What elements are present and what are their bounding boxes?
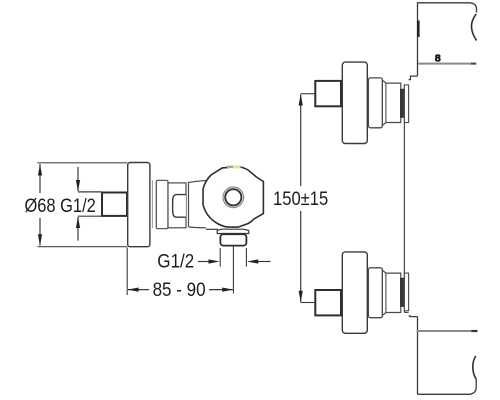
cylinder 1 bottom: [368, 268, 382, 318]
extension line wall face (85-90): [126, 248, 128, 296]
85-90 dim left arrow: [128, 289, 149, 291]
dimension line D68 lower segment: [39, 218, 41, 246]
extension line outlet left: [219, 248, 221, 267]
knob yellow indicator: [227, 166, 233, 168]
seal ring bottom (dark): [401, 278, 405, 306]
seal ring top (dark): [401, 89, 405, 117]
svg-text:8: 8: [435, 52, 441, 64]
85-90 dim right arrow: [209, 289, 233, 291]
center line of outlet: [232, 247, 234, 294]
cone edge bottom: [385, 273, 387, 312]
extension line bottom (escutcheon bottom): [37, 246, 127, 248]
G1/2 dim left tail + arrow: [198, 261, 209, 263]
bottom knob arc: [473, 356, 476, 378]
cylinder section 2: [168, 183, 186, 228]
G1/2 dim right tail + arrow: [257, 261, 271, 263]
stub line square bottom: [78, 215, 102, 217]
escutcheon (wall flange, side view): [128, 163, 150, 247]
svg-text:150±15: 150±15: [273, 189, 328, 210]
escutcheon bottom: [342, 252, 367, 333]
extension line top (escutcheon top): [37, 162, 127, 164]
arrow up 150: [299, 94, 303, 106]
grey separation line bottom: [417, 330, 478, 332]
svg-text:85 - 90: 85 - 90: [153, 280, 206, 301]
knob hub inner ring: [225, 189, 241, 205]
svg-text:G1/2: G1/2: [157, 251, 194, 272]
cylinder 1 top: [368, 78, 382, 128]
step bottom (body to union): [409, 315, 418, 318]
svg-text:Ø68 G1/2: Ø68 G1/2: [25, 196, 96, 217]
union nut face: [173, 195, 186, 218]
grey line dark tip bottom: [472, 330, 478, 332]
escutcheon rim line: [151, 180, 153, 228]
cone edge top: [385, 83, 387, 122]
outlet flange under knob: [217, 229, 249, 233]
body bottom edge: [418, 388, 477, 395]
square nipple bottom: [315, 290, 341, 315]
stub line square top: [78, 191, 102, 193]
square nipple top: [315, 81, 341, 106]
cylinder section 1: [156, 180, 168, 228]
G1/2 wall nipple (square block, side view): [102, 193, 127, 216]
dimension line G1/2 left, lower segment with up arrow: [77, 217, 79, 241]
arrow down 150: [299, 291, 303, 303]
retaining clip tick: [417, 21, 420, 38]
outlet nut G1/2: [220, 234, 246, 245]
extension line bottom inlet center: [301, 302, 316, 304]
knob hub outer ring: [223, 187, 244, 208]
top knob arc: [471, 14, 476, 41]
cylinder section 3 (body hub): [189, 181, 207, 228]
union back flange top: [404, 85, 408, 123]
step bottom inner: [404, 311, 408, 313]
dimension line G1/2 left, upper segment with down arrow: [77, 167, 79, 191]
dimension 150+-15 upper line segment: [300, 94, 302, 186]
dimension 150+-15 lower line segment: [300, 211, 302, 302]
step top (body to union): [409, 76, 418, 80]
cone + cylinder 2/3 bottom: [382, 270, 400, 315]
arrow down (D68 bottom): [38, 234, 42, 246]
arrow up (D68 top): [38, 164, 42, 176]
cone + cylinder 2/3 top: [382, 80, 400, 125]
body left edge bottom section: [417, 317, 419, 395]
union back flange bottom: [404, 273, 408, 311]
grey separation line top: [418, 63, 476, 65]
ledge line under knob: [206, 228, 218, 230]
escutcheon top: [342, 62, 367, 143]
grey line dark tip top: [471, 63, 476, 65]
bottom knob edge stub: [475, 378, 477, 388]
wall edge between connections: [403, 85, 405, 313]
body top edge: [418, 3, 477, 76]
extension line top inlet center: [301, 93, 316, 95]
dimension line D68 upper segment: [39, 164, 41, 193]
knob (thermostat handle, side view): [203, 167, 263, 228]
extension line outlet right: [245, 248, 247, 267]
